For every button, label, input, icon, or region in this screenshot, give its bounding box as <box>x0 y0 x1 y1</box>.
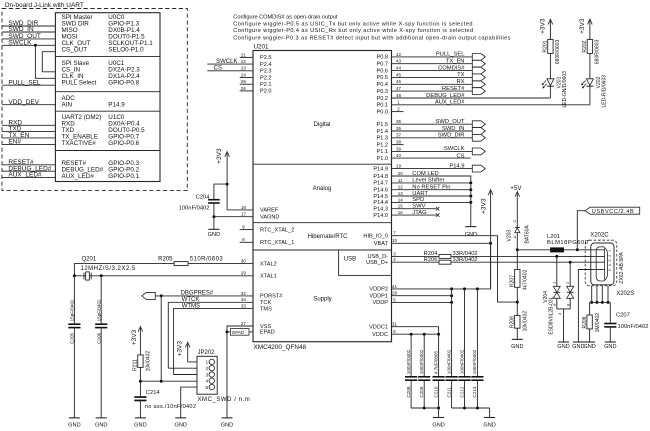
+3V3 supply arrow for R202 <box>589 21 591 40</box>
wire VDDP1 pin28 <box>392 295 452 297</box>
wire DBGPRES# down to JP202 pin4 rail <box>160 296 162 381</box>
svg-text:P0.4: P0.4 <box>376 82 388 88</box>
svg-text:44: 44 <box>396 66 402 71</box>
svg-text:21: 21 <box>241 52 247 57</box>
svg-text:12: 12 <box>398 185 404 190</box>
svg-text:XTAL2: XTAL2 <box>260 261 277 267</box>
capacitor C214 no ass./10nF/0402 <box>134 396 146 398</box>
wire C206 to ground <box>100 328 102 418</box>
connector X202 outer dashed outline <box>585 240 617 286</box>
+3V3 supply arrow for R201 <box>549 21 551 40</box>
svg-text:Configure wiggler-P0.4 as USIC: Configure wiggler-P0.4 as USIC_Rx but on… <box>233 28 473 34</box>
svg-text:45: 45 <box>396 72 402 77</box>
+3V3 supply arrow to JP202 pin 1 <box>187 344 189 362</box>
diode V203 BAT60A <box>515 226 520 228</box>
svg-text:P14.4: P14.4 <box>373 200 388 206</box>
svg-text:+3V3: +3V3 <box>480 198 487 214</box>
svg-text:15pF/0402: 15pF/0402 <box>70 299 75 321</box>
svg-text:PORST#: PORST# <box>260 294 283 300</box>
svg-text:24: 24 <box>241 72 247 77</box>
wire C205 to ground <box>73 328 75 418</box>
wire R202 to V202 <box>589 53 591 78</box>
svg-text:100nF/0402: 100nF/0402 <box>406 349 411 374</box>
svg-text:VDDC: VDDC <box>372 332 388 338</box>
svg-text:SWD_IN: SWD_IN <box>442 126 465 132</box>
svg-text:18: 18 <box>241 205 247 210</box>
capacitor C204 100nF/0402 <box>208 199 220 201</box>
wire C211 tap <box>451 289 453 376</box>
svg-text:P0.8: P0.8 <box>376 55 388 61</box>
svg-text:DBGPRES#: DBGPRES# <box>181 291 214 297</box>
svg-text:12MHZ/S/3.2X2.5: 12MHZ/S/3.2X2.5 <box>81 266 136 272</box>
+3V3 supply arrow to R211 <box>139 328 141 355</box>
wire COM LED from pin 20 to GND bus <box>392 176 471 227</box>
svg-text:47: 47 <box>396 86 402 91</box>
svg-text:P1.1: P1.1 <box>376 149 388 155</box>
svg-text:2: 2 <box>608 255 612 257</box>
svg-text:SWV: SWV <box>412 204 425 210</box>
svg-text:GND: GND <box>604 344 616 350</box>
ESD diode V204 ESD8V0L2B-03L channel 1 <box>556 256 558 286</box>
svg-text:GPIO-P0.6: GPIO-P0.6 <box>108 140 139 147</box>
svg-text:+3V3: +3V3 <box>176 341 183 357</box>
svg-text:P1.5: P1.5 <box>376 122 388 128</box>
svg-text:GND: GND <box>432 422 444 428</box>
capacitor C205 15pF/0402 <box>73 276 75 324</box>
svg-text:37: 37 <box>396 133 402 138</box>
wire V204 common pin3 to ground <box>556 298 558 309</box>
svg-text:EPAD: EPAD <box>232 330 245 335</box>
wire/flag PULL_SEL from U201 pin 42 <box>392 56 473 58</box>
svg-text:Supply: Supply <box>313 297 331 303</box>
svg-text:P0.1: P0.1 <box>376 103 388 109</box>
svg-text:CS_OUT: CS_OUT <box>62 47 88 54</box>
U201 pin 21 P2.5 <box>240 56 253 58</box>
svg-text:BLM18PG600: BLM18PG600 <box>547 240 588 246</box>
svg-text:TX: TX <box>457 72 465 78</box>
svg-text:C204: C204 <box>196 194 211 200</box>
svg-text:RTC_XTAL_2: RTC_XTAL_2 <box>260 227 294 233</box>
svg-text:GND: GND <box>557 344 569 350</box>
svg-text:P2.1: P2.1 <box>260 82 272 88</box>
wire DEBUG_LED# into J-Link block <box>2 170 55 172</box>
resistor R206 33R/0402 <box>439 260 451 264</box>
capacitor C209 100nF/0402 <box>418 376 430 378</box>
svg-text:GND: GND <box>511 344 523 350</box>
wire SWCLK into J-Link block <box>2 44 55 46</box>
svg-text:XTAL1: XTAL1 <box>260 274 277 280</box>
ground of COM-LED bus <box>465 226 476 228</box>
wire/flag SWCLK from U201 pin 39 <box>392 150 473 152</box>
wire WTCK to U201 pin 34 TCK <box>168 302 253 368</box>
LED V202 <box>586 79 593 86</box>
svg-text:PULL Select: PULL Select <box>62 80 97 87</box>
svg-text:22: 22 <box>241 59 247 64</box>
svg-text:XMC4200_QFN48: XMC4200_QFN48 <box>254 344 307 351</box>
LED V201 <box>547 79 554 86</box>
svg-text:AUX_LED#: AUX_LED# <box>8 172 42 179</box>
wire VBUS to L201 <box>517 249 550 251</box>
wire/flag TX from U201 pin 45 <box>392 76 473 78</box>
svg-text:4: 4 <box>206 379 209 385</box>
svg-text:5: 5 <box>608 269 612 271</box>
svg-text:P14.7: P14.7 <box>373 181 388 187</box>
flag USBVCC/2.4B <box>585 207 640 214</box>
svg-text:C206: C206 <box>96 332 101 343</box>
flag DBGPRES# <box>142 292 156 299</box>
svg-text:Q201: Q201 <box>82 256 97 262</box>
wire RXD into J-Link block <box>2 124 55 126</box>
svg-text:R206: R206 <box>424 257 438 263</box>
svg-text:19: 19 <box>396 164 402 169</box>
wire CS_OUT to CS_IN loop <box>42 52 55 72</box>
wire UART from pin 13 <box>392 195 471 197</box>
svg-text:P14.6: P14.6 <box>373 188 388 194</box>
svg-text:Configure wiggler-P0.3 as RESE: Configure wiggler-P0.3 as RESET# detect … <box>233 35 511 41</box>
svg-text:R211: R211 <box>132 359 138 371</box>
U201 pin 26 P2.0 <box>240 90 253 92</box>
wire C209 tap <box>423 334 425 376</box>
svg-text:HIB_IO_0: HIB_IO_0 <box>363 234 388 240</box>
wire SWD_OUT into J-Link block <box>2 38 55 40</box>
svg-text:4k7/0402: 4k7/0402 <box>522 270 528 291</box>
wire VSS/EPAD to ground <box>227 326 253 418</box>
svg-text:VBAT: VBAT <box>374 241 389 247</box>
svg-text:46: 46 <box>396 79 402 84</box>
svg-text:+3V3: +3V3 <box>539 18 546 34</box>
wire RESET# into J-Link block <box>2 164 55 166</box>
wire X202 pin5 GND to ground <box>578 270 590 343</box>
ground of C206 <box>96 417 107 419</box>
capacitor C208 100nF/0402 <box>405 376 417 378</box>
svg-text:25: 25 <box>241 79 247 84</box>
wire SWV no-connect from pin 15 <box>392 208 437 210</box>
wire R201 to V201 <box>549 53 551 78</box>
svg-text:V203: V203 <box>506 230 512 242</box>
wire R205 to crystal <box>74 264 174 276</box>
node XTAL1 junction <box>73 274 76 277</box>
svg-text:P1.2: P1.2 <box>376 142 388 148</box>
wire VDDC1 pin31 <box>392 327 439 376</box>
svg-text:16: 16 <box>398 210 404 215</box>
svg-text:RX: RX <box>456 79 464 85</box>
svg-text:XMC_SWD / n.m: XMC_SWD / n.m <box>198 397 251 403</box>
svg-text:15: 15 <box>398 204 404 209</box>
wire V202 cathode down <box>589 86 591 105</box>
svg-text:PULL_SEL: PULL_SEL <box>8 79 41 86</box>
svg-text:SWD_OUT: SWD_OUT <box>436 119 465 125</box>
resistor R209 1M/0402 <box>589 302 591 315</box>
wire to USBVCC flag <box>577 211 585 250</box>
svg-text:GND: GND <box>68 422 80 428</box>
svg-text:SWCLK: SWCLK <box>216 59 237 65</box>
svg-text:BAT60A: BAT60A <box>525 225 531 244</box>
svg-text:R202: R202 <box>582 40 588 52</box>
wire VDDC pin6 <box>392 333 439 335</box>
svg-text:C211: C211 <box>446 387 451 398</box>
svg-text:P0.0: P0.0 <box>376 109 388 115</box>
svg-text:VAGND: VAGND <box>260 215 279 221</box>
svg-text:P2.4: P2.4 <box>260 62 272 68</box>
junction R207/R208/HIB <box>516 287 518 315</box>
wire SWCLK to CLK_IN loop <box>35 45 55 78</box>
svg-text:39: 39 <box>396 146 402 151</box>
svg-text:TMS: TMS <box>260 306 272 312</box>
svg-text:P1.4: P1.4 <box>376 129 388 135</box>
junction D- ESD <box>555 255 558 258</box>
capacitor C206 15pF/0402 <box>100 276 102 324</box>
svg-text:40: 40 <box>396 153 402 158</box>
svg-text:Hibernate/RTC: Hibernate/RTC <box>308 234 349 240</box>
wire C212 tap <box>464 289 466 376</box>
U201 pin 24 P2.2 <box>240 77 253 79</box>
wire Level Shifter from pin 11 <box>392 182 471 184</box>
wire R204 to X202 pin2 <box>451 255 605 257</box>
svg-text:2: 2 <box>206 366 209 372</box>
svg-text:RESET#: RESET# <box>442 86 465 92</box>
svg-text:AUX_LED#: AUX_LED# <box>62 173 95 180</box>
svg-text:Level Shifter: Level Shifter <box>412 178 444 184</box>
wire USB_D+ pin4 to R206 <box>392 261 440 263</box>
svg-text:11: 11 <box>398 178 403 183</box>
svg-text:X202C: X202C <box>590 232 609 238</box>
wire C208 tap <box>410 334 412 376</box>
svg-text:PULL_SEL: PULL_SEL <box>436 52 465 58</box>
svg-text:U201: U201 <box>254 43 270 50</box>
svg-text:R207: R207 <box>510 275 516 287</box>
svg-text:100nF/0402: 100nF/0402 <box>618 324 649 330</box>
svg-text:100nF/0402: 100nF/0402 <box>459 349 464 374</box>
svg-text:33: 33 <box>241 304 247 309</box>
svg-text:P2.3: P2.3 <box>260 69 272 75</box>
svg-text:TX_EN: TX_EN <box>446 59 465 65</box>
svg-text:41: 41 <box>392 284 398 289</box>
svg-text:TXACTIVE#: TXACTIVE# <box>62 140 97 147</box>
junction C204 branch <box>226 183 229 186</box>
svg-text:42: 42 <box>396 52 402 57</box>
wire WTCK to JP202 pin2 <box>168 367 197 369</box>
svg-text:Configure wiggler-P0.5 as USIC: Configure wiggler-P0.5 as USIC_Tx but on… <box>233 22 473 28</box>
ground of R208 <box>512 338 523 340</box>
wire C213 tap <box>476 289 478 376</box>
svg-text:38: 38 <box>396 140 402 145</box>
svg-text:WTCK: WTCK <box>182 297 200 303</box>
svg-text:SWCLK: SWCLK <box>444 146 465 152</box>
svg-text:10k/0402: 10k/0402 <box>522 311 528 332</box>
svg-text:R208: R208 <box>510 316 516 328</box>
wire SWCLK to U201 pin 22 <box>207 63 253 65</box>
resistor R205 510R/0603 <box>174 262 188 266</box>
ground of C207 <box>605 341 616 343</box>
svg-text:48: 48 <box>396 93 402 98</box>
node XTAL2 junction <box>100 274 103 277</box>
svg-text:34: 34 <box>241 297 247 302</box>
svg-text:36: 36 <box>396 126 402 131</box>
U201 USB sub-block <box>339 250 392 275</box>
svg-text:P1.0: P1.0 <box>376 156 388 162</box>
wire SWD_DIR into J-Link block <box>2 25 55 27</box>
J-Link block boundary (dashed) <box>2 9 187 191</box>
svg-text:C209: C209 <box>419 386 424 397</box>
svg-text:JTAG: JTAG <box>412 210 427 216</box>
svg-text:SWD_DIR: SWD_DIR <box>438 133 465 139</box>
svg-text:680R/0603: 680R/0603 <box>555 39 561 64</box>
svg-text:17: 17 <box>241 212 247 217</box>
wire AUX_LED# into J-Link block <box>2 177 55 179</box>
U201 pin 25 P2.1 <box>240 83 253 85</box>
svg-text:1: 1 <box>608 250 612 252</box>
capacitor C213 100nF/0402 <box>471 376 483 378</box>
svg-text:P14.9: P14.9 <box>373 166 388 172</box>
svg-text:30: 30 <box>241 259 247 264</box>
ground of C208-C210 <box>433 417 444 419</box>
svg-text:15pF/0402: 15pF/0402 <box>96 299 101 321</box>
svg-text:P0.6: P0.6 <box>376 68 388 74</box>
svg-text:GND: GND <box>174 422 186 428</box>
svg-text:C207: C207 <box>616 312 630 318</box>
wire No RESET Pin from pin 12 <box>392 189 471 191</box>
junction D+ ESD <box>569 261 572 264</box>
+3V3 supply arrow to VAREF <box>226 153 228 210</box>
wire R211 to C214 <box>139 367 141 396</box>
ground of C211-C213 <box>484 417 495 419</box>
svg-text:14: 14 <box>398 197 404 202</box>
wire/flag SWD_DIR from U201 pin 37 <box>392 137 473 139</box>
capacitor C211 100nF/0402 <box>446 376 458 378</box>
capacitor C212 100nF/0402 <box>458 376 470 378</box>
svg-text:R205: R205 <box>158 257 173 263</box>
wire AUX_LED# from pin 1 to LED V202 <box>392 104 590 106</box>
wire V201 cathode down <box>549 86 551 98</box>
wire/flag SWD_IN from U201 pin 36 <box>392 130 473 132</box>
wire decoupling group2 to ground <box>452 407 490 409</box>
svg-text:P14.0: P14.0 <box>373 213 388 219</box>
svg-text:10: 10 <box>392 238 398 243</box>
wire R208 to ground <box>516 328 518 339</box>
wire/flag P14.9 from U201 pin 19 <box>392 168 473 170</box>
svg-text:COM LED: COM LED <box>412 171 438 177</box>
EPAD net label box <box>231 329 250 336</box>
svg-text:COMDIS#: COMDIS# <box>438 65 465 71</box>
junction R211/C214 to JP202 pin 4 <box>139 380 142 383</box>
svg-text:32: 32 <box>241 291 247 296</box>
wire USB_D- pin3 to R204 <box>392 255 440 257</box>
svg-text:29: 29 <box>241 271 247 276</box>
svg-text:GND: GND <box>483 422 495 428</box>
svg-text:+3V3: +3V3 <box>131 329 138 345</box>
svg-text:R201: R201 <box>543 40 549 52</box>
svg-text:UART: UART <box>412 191 428 197</box>
svg-text:No RESET Pin: No RESET Pin <box>412 185 450 191</box>
ground of C214 <box>135 417 146 419</box>
wire C214 to ground <box>139 401 141 418</box>
wire TXD into J-Link block <box>2 131 55 133</box>
wire V203 to VBUS node <box>516 233 518 250</box>
svg-text:P1.3: P1.3 <box>376 136 388 142</box>
wire VBAT pin10 to +3V3 <box>392 242 491 244</box>
wire/flag RESET# from U201 pin 47 <box>392 90 473 92</box>
svg-text:GND: GND <box>134 422 146 428</box>
svg-text:27: 27 <box>241 321 247 326</box>
svg-text:VDDC1: VDDC1 <box>369 325 388 331</box>
wire EN# into J-Link block <box>2 143 55 145</box>
svg-text:USB: USB <box>344 257 356 263</box>
ground of JP202 pin5 <box>175 417 186 419</box>
J-Link signal table U201 function map <box>55 13 160 182</box>
resistor R211 10k/0402 <box>138 355 143 368</box>
svg-text:P0.2: P0.2 <box>376 96 388 102</box>
wire L201 to X202 pin1 <box>564 249 605 251</box>
wire CS from U201 pin 40 <box>392 157 471 159</box>
svg-text:20: 20 <box>398 171 404 176</box>
svg-text:C210: C210 <box>433 386 438 397</box>
svg-text:USBVCC/2.4B: USBVCC/2.4B <box>592 209 634 215</box>
svg-text:SELO0-P1.0: SELO0-P1.0 <box>108 47 144 54</box>
wire shield bus <box>590 301 611 303</box>
svg-text:LED-GN/D/0603: LED-GN/D/0603 <box>562 71 568 108</box>
wire DBGPRES# to U201 pin 32 PORST# <box>155 295 253 297</box>
svg-text:3: 3 <box>206 372 209 378</box>
svg-text:Digital: Digital <box>314 122 331 128</box>
svg-text:USB_D+: USB_D+ <box>366 260 388 266</box>
wire VDD_DEV into J-Link block <box>2 104 55 106</box>
ground of V204 <box>558 341 569 343</box>
wire WTMS to JP202 pin3 <box>174 374 197 376</box>
svg-text:VAREF: VAREF <box>260 208 279 214</box>
junction USBVCC <box>576 248 579 251</box>
wire XTAL2 from R205 to U201 pin 30 <box>188 263 253 265</box>
wire/flag COMDIS# from U201 pin 44 <box>392 70 473 72</box>
svg-text:C205: C205 <box>70 332 75 343</box>
svg-text:28: 28 <box>392 291 398 296</box>
junction VBUS/R207 <box>516 248 519 251</box>
svg-text:TCK: TCK <box>260 300 271 306</box>
svg-text:C: C <box>512 220 517 223</box>
junction SWCLK <box>34 44 37 47</box>
svg-text:VDDP2: VDDP2 <box>369 287 388 293</box>
svg-text:23: 23 <box>241 66 247 71</box>
svg-text:100nF/0402: 100nF/0402 <box>472 349 477 374</box>
wire decoupling group1 to ground <box>411 407 439 409</box>
wire R206 to X202 pin3 <box>451 261 605 263</box>
svg-text:P0.7: P0.7 <box>376 62 388 68</box>
junction DBGPRES# to JP202 <box>160 294 163 297</box>
wire/flag RX from U201 pin 46 <box>392 83 473 85</box>
wire PULL_SEL into J-Link block <box>2 84 55 86</box>
svg-text:5: 5 <box>206 385 209 391</box>
wire +3V3 to JP202 pin1 <box>188 361 197 363</box>
svg-text:AIN: AIN <box>62 102 73 109</box>
U201 pin 2 stub <box>392 111 404 113</box>
svg-text:GND: GND <box>221 422 233 428</box>
ground of C205 <box>69 417 80 419</box>
svg-text:P14.9: P14.9 <box>449 163 464 169</box>
ground of R209 <box>584 341 595 343</box>
svg-text:4: 4 <box>608 264 612 266</box>
wire C204 to VAGND pin 17 <box>213 204 215 230</box>
svg-text:680R/0603: 680R/0603 <box>595 39 601 64</box>
svg-text:P2.5: P2.5 <box>260 55 272 61</box>
svg-text:EN#: EN# <box>8 139 21 146</box>
wire TX_EN into J-Link block <box>2 137 55 139</box>
svg-text:P14.3: P14.3 <box>373 207 388 213</box>
svg-text:1: 1 <box>206 360 209 366</box>
U201 pin 9 RTC_XTAL_2 <box>240 229 253 231</box>
resistor R202 680R/0603 <box>587 40 592 54</box>
wire VDDP pin5 <box>392 301 452 303</box>
wire CS to U201 pin 23 <box>207 70 253 72</box>
X202 shield pins <box>591 286 593 303</box>
